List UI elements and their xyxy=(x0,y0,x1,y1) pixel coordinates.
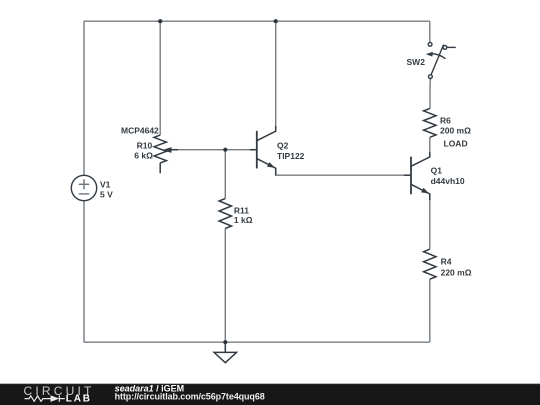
wire R10 top xyxy=(159,21,161,135)
svg-text:Q2: Q2 xyxy=(277,141,289,151)
wire SW2 top xyxy=(429,21,431,42)
svg-text:5 V: 5 V xyxy=(100,189,113,199)
ground xyxy=(214,342,236,363)
node junction dot top R10 xyxy=(158,19,162,23)
potentiometer R10 xyxy=(154,135,166,173)
wire Q2 emitter to Q1 base xyxy=(276,168,411,175)
svg-text:Q1: Q1 xyxy=(431,166,443,176)
svg-text:6 kΩ: 6 kΩ xyxy=(134,151,153,161)
svg-text:V1: V1 xyxy=(100,180,111,190)
wire left rail lower xyxy=(83,201,85,343)
svg-text:R10: R10 xyxy=(137,141,153,151)
svg-text:1 kΩ: 1 kΩ xyxy=(234,215,253,225)
svg-text:LOAD: LOAD xyxy=(444,138,468,148)
svg-text:d44vh10: d44vh10 xyxy=(431,176,465,186)
svg-text:200 mΩ: 200 mΩ xyxy=(440,126,471,136)
transistor Q1 xyxy=(404,152,430,200)
svg-text:TIP122: TIP122 xyxy=(277,151,305,161)
footer bar xyxy=(0,384,540,405)
wire R4 bottom xyxy=(429,279,431,342)
svg-text:http://circuitlab.com/c56p7te4: http://circuitlab.com/c56p7te4quq68 xyxy=(115,392,265,402)
resistor R11 xyxy=(219,199,231,229)
wire SW2 bottom to R6 xyxy=(429,78,431,108)
wire R11 top xyxy=(224,150,226,199)
voltage source V1 xyxy=(71,175,96,200)
wire Q1 emitter to R4 xyxy=(429,194,431,249)
transistor Q2 emitter arrow xyxy=(267,162,275,168)
svg-text:LAB: LAB xyxy=(66,393,92,404)
wire R6 bottom to Q1 collector xyxy=(429,137,431,157)
node junction dot top Q2 collector xyxy=(274,19,278,23)
resistor R6 xyxy=(424,109,436,138)
svg-text:R11: R11 xyxy=(234,205,249,215)
node junction dot ground xyxy=(223,340,227,344)
transistor Q2 xyxy=(250,126,276,175)
wire left rail upper xyxy=(83,21,85,175)
svg-text:220 mΩ: 220 mΩ xyxy=(441,267,472,277)
switch SW2 xyxy=(428,42,456,78)
svg-text:MCP4642: MCP4642 xyxy=(121,126,159,136)
wire R11 bottom xyxy=(224,229,226,343)
switch SW2 actuation arrow xyxy=(426,52,433,57)
footer CircuitLab logo mark xyxy=(25,395,65,401)
node junction dot wiper/R11 xyxy=(223,148,227,152)
svg-text:SW2: SW2 xyxy=(407,57,426,67)
potentiometer R10 wiper arrow xyxy=(162,147,178,153)
transistor Q1 emitter arrow xyxy=(421,188,429,194)
wire bottom rail xyxy=(84,341,430,343)
wire Q2 collector xyxy=(275,21,277,131)
wire top rail xyxy=(84,20,430,22)
svg-text:R4: R4 xyxy=(441,256,452,266)
resistor R4 xyxy=(424,249,436,279)
svg-text:R6: R6 xyxy=(440,116,451,126)
wire wiper to Q2 base xyxy=(171,149,257,151)
